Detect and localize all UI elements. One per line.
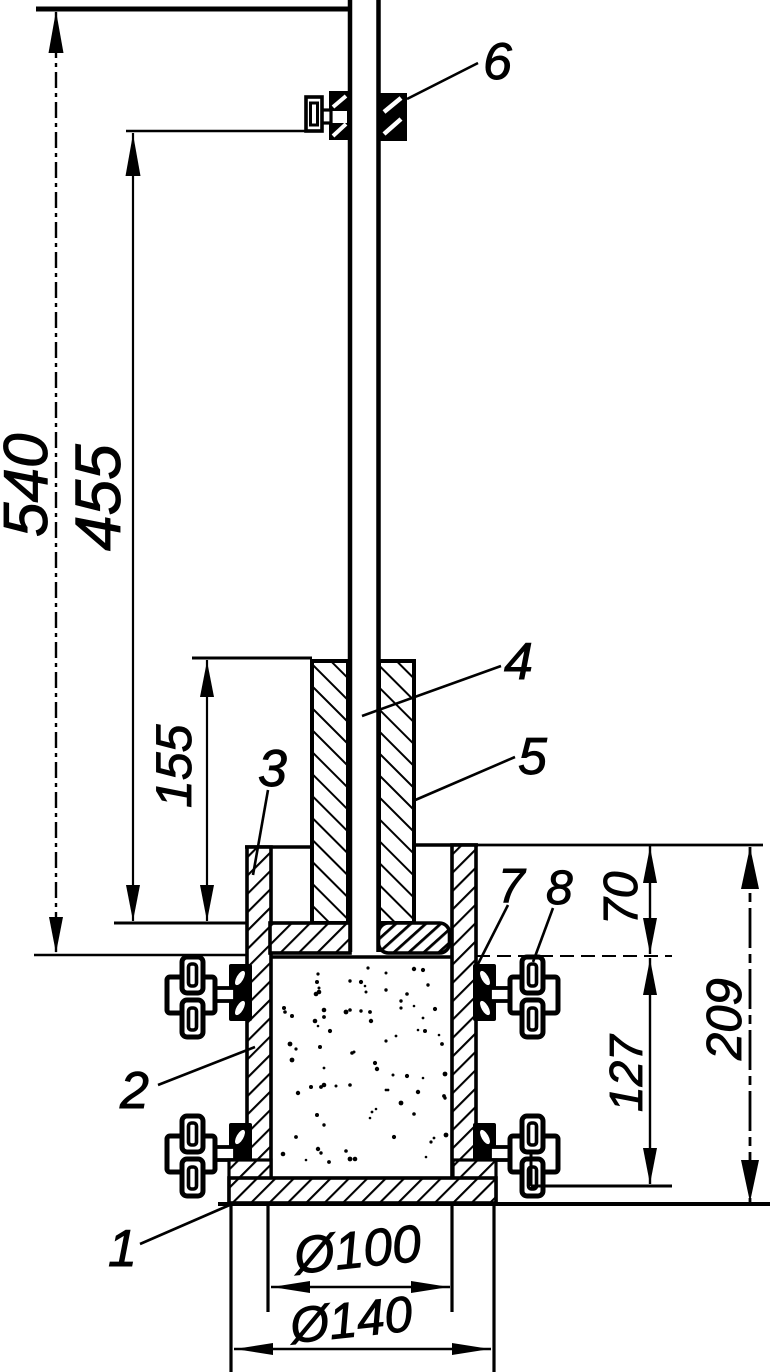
leader line 2 [158, 1047, 255, 1085]
guide rod [348, 0, 353, 952]
arrowhead Ø140 right [452, 1343, 490, 1355]
arrowhead 155 bottom [200, 885, 214, 921]
leader line 7 [477, 905, 508, 966]
piston foot plate right (hatched) [379, 923, 450, 953]
base outline extension left inner [266, 1204, 269, 1312]
arrowhead 127 bottom [643, 1148, 657, 1184]
extension stub below lower right clamp [530, 1150, 533, 1186]
svg-text:4: 4 [504, 633, 533, 691]
sleeve right column (part 5 hatched) [379, 661, 414, 923]
svg-text:2: 2 [119, 1062, 149, 1120]
arrowhead Ø100 right [411, 1281, 449, 1293]
dimension line 155 [206, 660, 208, 921]
svg-text:127: 127 [600, 1034, 652, 1112]
arrowhead 455 bottom [126, 885, 140, 921]
clamp screw block right (part 6) [380, 93, 407, 141]
clamp screw shaft [321, 110, 331, 123]
arrowhead 209 top [741, 847, 759, 889]
arrowhead 127 top [643, 959, 657, 995]
clamp screw head [306, 97, 322, 131]
base outline extension right outer [492, 1204, 495, 1372]
svg-text:209: 209 [698, 978, 752, 1061]
base flange right (part 1) [453, 1160, 496, 1203]
top extension line (540 top) [36, 7, 352, 12]
extension line bottom of 455/155 [114, 922, 256, 925]
svg-text:6: 6 [483, 33, 512, 91]
collar / mold left wall (parts 3,2) [247, 847, 271, 1177]
arrowhead 455 top [126, 134, 141, 176]
base outline extension right inner [450, 1204, 453, 1312]
ground line [218, 1202, 770, 1206]
extension line collar top right [478, 844, 763, 847]
arrowhead Ø140 left [235, 1343, 273, 1355]
soil sample top edge [271, 955, 452, 959]
dimension line Ø100 [271, 1286, 450, 1289]
collar top edge left [245, 845, 312, 849]
wing nut clamp upper left (parts 7,8) [167, 957, 252, 1037]
reference line left (540 bottom / soil top level) [34, 954, 247, 956]
dimension line 70 [649, 846, 651, 954]
arrowhead 70 top [643, 847, 657, 883]
svg-text:540: 540 [0, 434, 61, 537]
wing nut clamp upper right [473, 957, 558, 1037]
svg-text:1: 1 [108, 1220, 137, 1278]
collar top edge right [412, 843, 478, 847]
leader line 6 [407, 63, 478, 99]
wing nut clamp lower left [167, 1116, 252, 1196]
extension line 455 top [126, 130, 308, 133]
svg-text:5: 5 [518, 728, 548, 786]
svg-text:70: 70 [595, 871, 648, 925]
piston foot plate left (hatched) [270, 923, 350, 953]
dimension line 540 (dash-dot vertical) [55, 12, 57, 952]
dimension line Ø140 [234, 1348, 491, 1351]
arrowhead 209 bottom [741, 1160, 759, 1202]
svg-text:3: 3 [258, 740, 287, 798]
leader line 3 [253, 790, 268, 875]
leader line 8 [533, 908, 553, 962]
arrowhead 540 top [49, 11, 64, 53]
base flange left (part 1) [229, 1160, 271, 1203]
svg-text:155: 155 [146, 724, 202, 808]
collar corner ink blob [248, 847, 270, 873]
arrowhead Ø100 left [272, 1281, 310, 1293]
svg-text:8: 8 [546, 862, 573, 915]
extension line 127 bottom [531, 1185, 672, 1188]
clamp screw block left (part 6) [329, 91, 349, 140]
dimension line 455 [132, 133, 134, 921]
collar / mold right wall (parts 3,2) [452, 845, 476, 1177]
base outline extension left outer [229, 1204, 232, 1372]
arrowhead 70 bottom [643, 918, 657, 954]
extension line 155 top [192, 657, 312, 660]
sleeve left column (part 5 hatched) [312, 661, 348, 923]
wing nut clamp lower right [473, 1116, 558, 1196]
soil sample stipple [281, 966, 449, 1164]
leader line 5 [413, 757, 515, 801]
leader line 4 [362, 666, 501, 716]
svg-text:7: 7 [498, 860, 527, 913]
svg-text:455: 455 [62, 444, 134, 551]
leader line 1 [140, 1204, 232, 1244]
arrowhead 540 bottom [49, 917, 63, 953]
dimension line 127 [649, 958, 651, 1184]
arrowhead 155 top [200, 661, 214, 697]
dimension line 209 [749, 847, 752, 1202]
reference dashed line right (soil top level) [476, 955, 672, 957]
base plate (part 1) [229, 1178, 496, 1203]
